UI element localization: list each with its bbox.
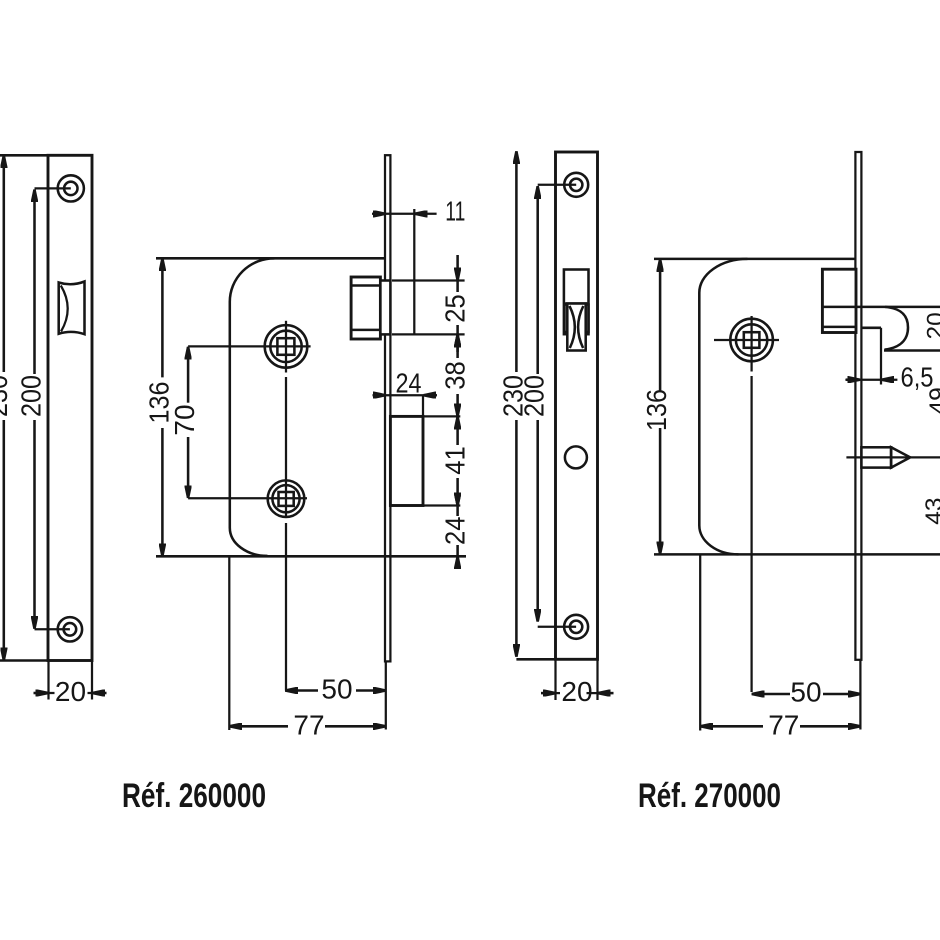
svg-text:38: 38 bbox=[439, 361, 470, 390]
svg-text:43: 43 bbox=[921, 497, 940, 524]
svg-text:25: 25 bbox=[439, 294, 470, 323]
svg-text:70: 70 bbox=[169, 404, 200, 435]
svg-text:50: 50 bbox=[321, 673, 352, 704]
svg-text:50: 50 bbox=[790, 677, 821, 708]
svg-text:20: 20 bbox=[923, 312, 940, 339]
svg-text:24: 24 bbox=[439, 517, 470, 546]
svg-text:200: 200 bbox=[16, 375, 47, 417]
svg-text:20: 20 bbox=[561, 676, 592, 707]
svg-text:24: 24 bbox=[396, 368, 422, 399]
svg-text:11: 11 bbox=[445, 196, 465, 227]
svg-text:Réf. 260000: Réf. 260000 bbox=[122, 777, 266, 815]
svg-text:49: 49 bbox=[925, 387, 940, 414]
svg-text:Réf. 270000: Réf. 270000 bbox=[638, 777, 781, 815]
svg-text:77: 77 bbox=[768, 710, 799, 741]
svg-text:136: 136 bbox=[641, 389, 672, 431]
svg-text:77: 77 bbox=[293, 709, 324, 740]
svg-text:230: 230 bbox=[0, 375, 13, 417]
svg-text:41: 41 bbox=[439, 446, 470, 475]
svg-text:200: 200 bbox=[519, 375, 550, 417]
svg-text:20: 20 bbox=[55, 676, 86, 707]
